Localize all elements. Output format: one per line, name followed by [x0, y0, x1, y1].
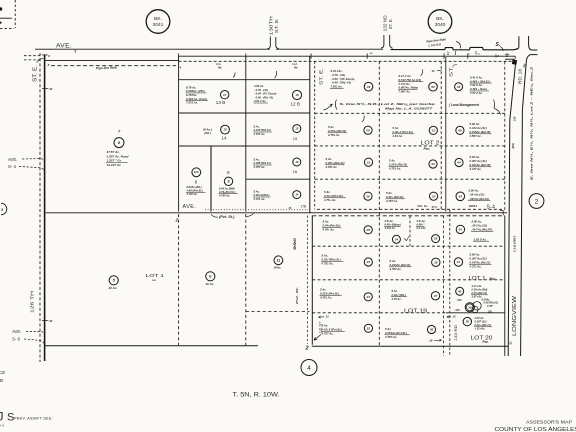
svg-text:S- 8: S- 8: [12, 336, 20, 341]
break slash mark 4: [421, 70, 423, 77]
svg-text:21: 21: [366, 160, 371, 164]
parcel 35 acreage text: [416, 219, 427, 230]
dashed boundary y=311.5 west of road: [246, 311, 310, 313]
svg-text:40 Ac.: 40 Ac.: [205, 282, 215, 286]
lot1 dashed boundary x=245.8: [245, 214, 247, 346]
svg-text:(Rd.): (Rd.): [205, 131, 211, 135]
parcel 26 circle: [364, 192, 372, 200]
parcel 32 acreage text: [388, 159, 408, 171]
131st east dashed south half: [307, 216, 309, 345]
130th st east line: [276, 37, 279, 49]
parcel 31 circle: [429, 126, 437, 134]
svg-text:LOT 19: LOT 19: [404, 309, 427, 315]
frontage tick t3: [495, 54, 497, 58]
svg-text:36: 36: [434, 260, 438, 264]
svg-text:37: 37: [434, 294, 438, 298]
section line tick at x=367.2: [366, 53, 368, 58]
road west stub y54: [505, 53, 509, 55]
parcel 33 circle: [430, 192, 438, 200]
svg-text:Por.: Por.: [483, 340, 489, 344]
svg-text:S-4: S-4: [487, 204, 496, 210]
frontage tick t2: [475, 51, 477, 55]
svg-text:ASSESSOR'S MAP: ASSESSOR'S MAP: [526, 419, 572, 425]
svg-text:4 -5: 4 -5: [0, 424, 5, 428]
svg-text:5B: 5B: [0, 378, 3, 383]
side street south edge and Longview east edge start: [526, 55, 537, 61]
road west stub y59: [505, 58, 515, 60]
parcel 28 circle: [427, 325, 435, 333]
Longview west edge: [508, 63, 515, 356]
svg-text:4.81 Ac.: 4.81 Ac.: [392, 134, 404, 138]
svg-text:15: 15: [223, 128, 227, 132]
pvt st left flourish: [211, 215, 218, 218]
adjacent map fragment horizontal: [0, 17, 12, 19]
svg-text:33: 33: [432, 194, 436, 198]
st label flourish: [453, 64, 457, 66]
svg-text:39514: 39514: [469, 204, 477, 208]
left street solid line: [44, 55, 46, 361]
svg-text:Por.: Por.: [490, 277, 496, 281]
svg-text:4.757 Ac.: 4.757 Ac.: [384, 335, 397, 339]
svg-text:10A: 10A: [194, 170, 199, 174]
parcel 37 circle: [431, 292, 439, 300]
svg-text:38: 38: [430, 328, 434, 332]
parcel 24 acreage text: [321, 254, 344, 266]
south row dashed y=246.2: [312, 245, 505, 247]
svg-text:49: 49: [366, 85, 371, 89]
svg-text:12 B: 12 B: [291, 102, 300, 107]
pipeline corner blob at longview: [512, 60, 517, 65]
svg-text:4.78+ Ac.: 4.78+ Ac.: [322, 228, 335, 232]
svg-text:Rd.: Rd.: [294, 67, 298, 70]
svg-text:Pvt. S+.: Pvt. S+.: [418, 204, 429, 208]
left street dashed west line: [39, 53, 41, 362]
south row dashed y=312.8 west part: [312, 312, 446, 314]
svg-text:S- 4: S- 4: [8, 164, 16, 169]
svg-text:100: 100: [513, 116, 517, 121]
svg-text:ST. E.: ST. E.: [388, 18, 393, 29]
svg-text:7.687 Ac.: 7.687 Ac.: [399, 90, 411, 94]
svg-text:LOT 2: LOT 2: [421, 140, 440, 146]
svg-text:14: 14: [295, 193, 299, 197]
section line right corner drop: [514, 56, 516, 58]
131st west line north half: [309, 56, 311, 213]
svg-text:15: 15: [293, 136, 297, 141]
133rd east solid line north: [445, 57, 447, 212]
svg-text:41: 41: [456, 260, 461, 264]
land management closing brace: [494, 100, 495, 109]
svg-text:4.78+ Ac.: 4.78+ Ac.: [323, 198, 336, 202]
svg-text:40: 40: [48, 87, 53, 91]
lot blocks east solid boundary: [504, 216, 506, 357]
svg-text:5: 5: [1, 208, 3, 212]
svg-text:4.371 Ac.: 4.371 Ac.: [469, 265, 482, 269]
svg-text:AVE.: AVE.: [8, 157, 17, 162]
svg-text:2: 2: [305, 346, 309, 352]
parcel 22 circle: [364, 324, 372, 332]
svg-text:126 TH: 126 TH: [29, 291, 34, 313]
svg-text:( Land Management: ( Land Management: [449, 103, 480, 107]
parcel 16 acreage text: [253, 157, 272, 169]
parcel 30 circle: [463, 317, 471, 325]
section line tick at x=245.8: [245, 53, 247, 58]
book circle BK.3041: [146, 10, 170, 34]
svg-text:.330: .330: [457, 298, 463, 302]
parcel 39 double circle: [465, 303, 474, 312]
svg-text:0.247"(Rd.31): 0.247"(Rd.31): [254, 128, 271, 132]
svg-text:2.0 1Ac.: 2.0 1Ac.: [416, 226, 427, 230]
row line y=179 dashed right: [315, 178, 505, 180]
40ft tick upper: [42, 87, 48, 89]
S label flourish: [500, 47, 503, 52]
svg-text:RD. 18: RD. 18: [517, 68, 522, 84]
parcel 49 circle: [364, 82, 373, 91]
131st west line south half: [311, 216, 313, 345]
svg-text:40 Ac.: 40 Ac.: [108, 286, 118, 290]
parcel 41 circle: [454, 258, 462, 266]
svg-text:35: 35: [434, 237, 438, 241]
svg-text:ST. E.: ST. E.: [33, 65, 39, 82]
section number circle 4: [301, 360, 317, 376]
parcel 34 acreage text: [384, 219, 401, 230]
svg-text:2.39": 2.39": [486, 305, 494, 308]
svg-text:ST.: ST.: [448, 66, 453, 77]
parcel 41 acreage text: [469, 252, 492, 268]
svg-text:30: 30: [466, 320, 470, 324]
col C east dashed boundary: [504, 62, 506, 212]
svg-text:4.751 Ac.: 4.751 Ac.: [388, 167, 401, 171]
svg-text:.33: .33: [325, 315, 329, 319]
AVE top road line west part: [35, 48, 270, 50]
svg-text:14: 14: [222, 135, 227, 140]
svg-text:133 RD: 133 RD: [453, 325, 458, 341]
130th st west line: [267, 37, 270, 49]
svg-text:- 0.76 - (31): - 0.76 - (31): [254, 88, 268, 92]
svg-text:40: 40: [457, 289, 462, 293]
parcel 16 circle: [293, 158, 301, 166]
parcel 40 acreage text: [471, 284, 488, 299]
parcel 32 circle: [429, 160, 437, 168]
parcel 35 circle: [432, 235, 440, 243]
AVE S-4 leader lower: [19, 166, 44, 170]
svg-text:4.752 Ac.: 4.752 Ac.: [389, 267, 402, 271]
parcel 7 north boundary: [45, 59, 178, 61]
svg-text:46: 46: [456, 85, 461, 89]
svg-text:8.00Ac.(Rd.): 8.00Ac.(Rd.): [187, 185, 202, 189]
svg-text:33: 33: [432, 69, 436, 73]
svg-text:Pipe line Role: Pipe line Role: [96, 66, 117, 71]
svg-text:4.751 Ac.: 4.751 Ac.: [325, 165, 338, 169]
row line y=146 solid left: [179, 145, 310, 147]
row dashed y=209.3 right grid: [317, 208, 503, 210]
left street label leader curve: [37, 58, 44, 62]
svg-text:50: 50: [431, 85, 435, 89]
svg-text:Por.: Por.: [424, 147, 430, 151]
svg-text:0.45+(Rd.31): 0.45+(Rd.31): [472, 291, 487, 295]
svg-text:7.57 2 Ac.: 7.57 2 Ac.: [470, 91, 483, 95]
svg-text:4.757 Ac.: 4.757 Ac.: [321, 332, 334, 336]
parcel 33 acreage text: [385, 191, 405, 203]
svg-text:31: 31: [432, 129, 436, 133]
south row dashed y=279.8: [312, 279, 505, 281]
parcel 12B circle 16: [292, 90, 301, 99]
svg-text:-.697Ac.(Rd.18): -.697Ac.(Rd.18): [469, 197, 489, 201]
svg-text:S.: S.: [496, 42, 501, 48]
svg-text:(Pvt. St.): (Pvt. St.): [219, 215, 235, 219]
133rd west dashed line south: [443, 216, 445, 357]
parcel 13B acreage text: [186, 85, 208, 104]
svg-text:J: J: [0, 410, 4, 424]
note leader arrowhead: [330, 104, 333, 107]
parcel 14 circle 15: [221, 125, 230, 134]
parcel 13B circle 17: [221, 91, 229, 99]
33 measure tick: [437, 69, 442, 72]
AVE S-8 leader lower: [24, 339, 44, 345]
svg-text:4.751 Ac.: 4.751 Ac.: [321, 262, 334, 266]
parcel 34 circle: [392, 235, 400, 243]
svg-text:2: 2: [175, 218, 179, 223]
parcel 45 circle: [456, 126, 464, 134]
parcel 7 acreage text: [106, 150, 129, 167]
AVE middle dotted line: [205, 209, 308, 211]
svg-text:45: 45: [457, 129, 462, 133]
svg-text:LOT 1: LOT 1: [469, 276, 486, 282]
svg-text:4.80 Ac.: 4.80 Ac.: [253, 84, 264, 88]
parcel 6 circle: [206, 272, 215, 281]
svg-text:5 Ac.: 5 Ac.: [254, 189, 261, 193]
parcel 22 acreage text: [321, 324, 345, 336]
south row solid y=312.8 east part: [446, 312, 505, 314]
parcel 8 circle 10A: [192, 168, 201, 177]
svg-text:44.237 Ac.: 44.237 Ac.: [106, 163, 122, 167]
parcel 36 acreage text: [389, 259, 412, 271]
svg-text:Pvt. St.: Pvt. St.: [295, 287, 299, 304]
svg-text:4.451 Ac.: 4.451 Ac.: [384, 226, 396, 230]
parcel 42 acreage text: [471, 219, 493, 231]
section line tick at x=444.0: [443, 53, 445, 58]
svg-text:39: 39: [468, 305, 472, 309]
33 arrow line row4: [319, 316, 325, 318]
svg-text:4.751 Ac.: 4.751 Ac.: [319, 296, 332, 300]
svg-text:4.797 Ac.: 4.797 Ac.: [186, 192, 198, 196]
svg-text:4.98+(Pvt.St.): 4.98+(Pvt.St.): [186, 189, 203, 193]
section number circle 2: [529, 194, 544, 209]
svg-text:32: 32: [431, 162, 435, 166]
parcel 15 circle: [293, 125, 301, 133]
note leader curve: [324, 104, 333, 110]
north-south road west line above AVE: [515, 36, 519, 49]
svg-text:8.00 Ac.(BM): 8.00 Ac.(BM): [219, 186, 235, 190]
parcel 23 acreage text: [319, 288, 342, 300]
svg-text:18Ac.: 18Ac.: [274, 265, 282, 269]
AVE S-4 road line (middle): [45, 212, 507, 214]
pipeline easement dashed: [51, 65, 176, 67]
svg-text:(5 Ac.): (5 Ac.): [203, 127, 212, 131]
half parcel split dashed x=410: [409, 216, 411, 246]
south grid top dashed y=215.8: [312, 215, 505, 217]
svg-text:AVE.: AVE.: [56, 43, 72, 50]
parcel 20 acreage text: [327, 125, 347, 137]
svg-text:PREV. ASSM'T SEE:: PREV. ASSM'T SEE:: [14, 417, 53, 421]
row line y=113 dashed right: [315, 112, 505, 114]
svg-text:281: 281: [487, 310, 493, 313]
svg-text:T. 5N, R. 10W.: T. 5N, R. 10W.: [233, 391, 280, 398]
svg-text:4.721 Ac.: 4.721 Ac.: [253, 197, 266, 201]
svg-text:AVE.: AVE.: [183, 204, 197, 210]
adjacent map fragment dashed horizontal: [0, 27, 14, 29]
parcel 9 acreage text: [218, 186, 238, 197]
svg-text:0.38+Ac.(Rd): 0.38+Ac.(Rd): [472, 288, 488, 292]
svg-text:+.31+Ac.: +.31+Ac.: [475, 327, 486, 331]
svg-text:10: 10: [295, 160, 299, 164]
svg-text:13 B: 13 B: [216, 100, 225, 105]
parcel 36 circle: [432, 258, 440, 266]
133rd west dashed line north: [440, 61, 442, 211]
svg-text:132 ND: 132 ND: [383, 15, 388, 32]
left edge parcel circle fragment: [1, 203, 7, 215]
corner bracket near x=503 y=212: [500, 211, 503, 216]
break slash mark 3: [362, 116, 364, 123]
parcel 7 assessment circle: [114, 138, 124, 148]
svg-text:S. line N½, N.B., Lot 2, NE¼ p: S. line N½, N.B., Lot 2, NE¼ per Gurba: [340, 102, 435, 106]
12A road dashed line: [179, 60, 513, 62]
parcel 26 acreage text: [323, 190, 346, 202]
svg-text:4.377 Ac.: 4.377 Ac.: [469, 167, 482, 171]
break slash mark 2: [275, 71, 277, 78]
AVE S-4 leader upper: [22, 159, 44, 161]
svg-text:ST. E.: ST. E.: [319, 68, 324, 85]
svg-text:26: 26: [365, 194, 370, 198]
svg-text:4.17+Ac.: 4.17+Ac.: [471, 284, 483, 288]
svg-text:37.7¡: 37.7¡: [432, 205, 438, 209]
parcel 39 overlapping circle outlines: [473, 302, 481, 310]
svg-text:22: 22: [366, 326, 371, 330]
13A strip bottom line: [179, 79, 310, 81]
svg-text:16: 16: [293, 169, 297, 174]
svg-text:13A: 13A: [216, 62, 221, 66]
svg-text:4.751 Ac.: 4.751 Ac.: [327, 133, 340, 137]
parcel 21 circle: [364, 158, 372, 166]
svg-text:.33: .33: [452, 314, 456, 318]
left dashed stub upper: [24, 55, 42, 57]
svg-text:40: 40: [48, 319, 53, 323]
svg-text:.49 7Ac.(Rd.2P): .49 7Ac.(Rd.2P): [471, 228, 492, 232]
132nd st east line: [390, 35, 393, 48]
svg-text:12A: 12A: [292, 62, 297, 66]
svg-text:Map No. L.A. 0126077: Map No. L.A. 0126077: [385, 106, 432, 110]
parcel 37 acreage text: [391, 289, 407, 301]
parcel 43 circle: [456, 192, 465, 201]
parcel 44 circle: [455, 158, 463, 166]
north-south road east line above AVE: [529, 36, 538, 50]
svg-text:- 0.48 - (Rd. 41): - 0.48 - (Rd. 41): [254, 95, 273, 99]
svg-text:BK.: BK.: [154, 16, 162, 22]
parcel 12B acreage text: [253, 84, 276, 103]
parcel 5 circle: [109, 276, 118, 285]
parcel 25 circle: [364, 226, 372, 234]
parcel 40 circle: [456, 287, 464, 295]
svg-text:8: 8: [195, 180, 198, 185]
parcel 46 acreage text: [470, 75, 492, 95]
svg-text:13: 13: [295, 127, 299, 131]
svg-text:5 Ac.: 5 Ac.: [254, 124, 261, 128]
left dashed stub lower: [24, 59, 42, 61]
svg-text:0.397-(31): 0.397-(31): [475, 320, 487, 324]
parcel 9 circle: [224, 177, 232, 185]
parcel 44 acreage text: [469, 155, 492, 171]
parcel 8/9 divider x=211: [210, 146, 212, 212]
svg-text:LOT 1: LOT 1: [146, 273, 165, 278]
south boundary west segment: [45, 345, 258, 347]
adjacent map fragment dashed vertical: [14, 0, 16, 28]
parcel 17B acreage text: [253, 189, 271, 201]
svg-text:0.285"(Rd.31): 0.285"(Rd.31): [254, 161, 271, 165]
svg-text:130TH: 130TH: [269, 16, 274, 35]
svg-text:2.00 Ac.: 2.00 Ac.: [474, 316, 485, 320]
svg-text:17B: 17B: [301, 204, 307, 208]
parcel 8 acreage text: [186, 185, 206, 196]
lot1 dashed boundary x=178.6: [178, 214, 180, 345]
book circle BK.3040: [428, 10, 452, 34]
parcel 43 acreage text: [468, 188, 490, 200]
Longview east edge: [521, 61, 527, 357]
svg-text:- 0.48 - (Pl. Easm): - 0.48 - (Pl. Easm): [254, 92, 276, 96]
svg-text:5 Ac.: 5 Ac.: [254, 157, 261, 161]
svg-text:43: 43: [458, 194, 463, 198]
parcel 30 acreage text: [474, 316, 493, 331]
adjacent map fragment ink blob: [0, 7, 2, 10]
svg-text:34: 34: [395, 237, 399, 241]
svg-text:BK.: BK.: [436, 16, 444, 22]
svg-text:P.M.: P.M.: [152, 280, 157, 282]
svg-text:23: 23: [365, 295, 370, 299]
row line y=113 solid left: [179, 112, 310, 114]
131st east dashed line north half: [314, 61, 316, 209]
arrow to south corner: [314, 335, 321, 341]
parcel 49 acreage text: [330, 69, 354, 89]
svg-text:4.764 Ac.: 4.764 Ac.: [218, 194, 230, 198]
pvt st right flourish: [246, 214, 254, 217]
section line below AVE: [179, 55, 516, 57]
parcel 42 circle: [456, 225, 464, 233]
section line tick at x=467.8: [467, 53, 469, 58]
section line tick at x=311.0: [310, 53, 312, 58]
parcel 15 acreage text: [253, 124, 272, 136]
svg-text:.38: .38: [429, 339, 433, 343]
parcel 23 circle: [364, 293, 372, 301]
svg-text:2.5+Ac.: 2.5+Ac.: [416, 219, 426, 223]
parcel boundary x=245.8 solid: [245, 56, 247, 211]
svg-text:24: 24: [366, 260, 371, 264]
svg-text:3040: 3040: [435, 22, 446, 28]
132nd st west line: [381, 35, 384, 48]
grid dashed vertical x=379: [378, 61, 380, 345]
svg-text:5 Ac.: 5 Ac.: [392, 289, 399, 293]
svg-text:LONGVIEW: LONGVIEW: [512, 295, 518, 336]
svg-text:0.49+"(Rd.): 0.49+"(Rd.): [392, 293, 406, 297]
svg-text:2: 2: [535, 198, 539, 205]
svg-text:4.757 Ac.: 4.757 Ac.: [253, 165, 266, 169]
parcel 50 acreage text: [398, 74, 423, 94]
parcel 28 acreage text: [384, 327, 410, 339]
parcel 45 acreage text: [469, 122, 492, 138]
svg-text:AVE.: AVE.: [12, 329, 21, 334]
frontage tick t1: [455, 51, 457, 55]
svg-text:9: 9: [227, 170, 230, 175]
pipeline label flourish: [456, 42, 461, 49]
svg-text:44: 44: [456, 161, 461, 165]
svg-text:ST. E: ST. E: [274, 19, 279, 33]
